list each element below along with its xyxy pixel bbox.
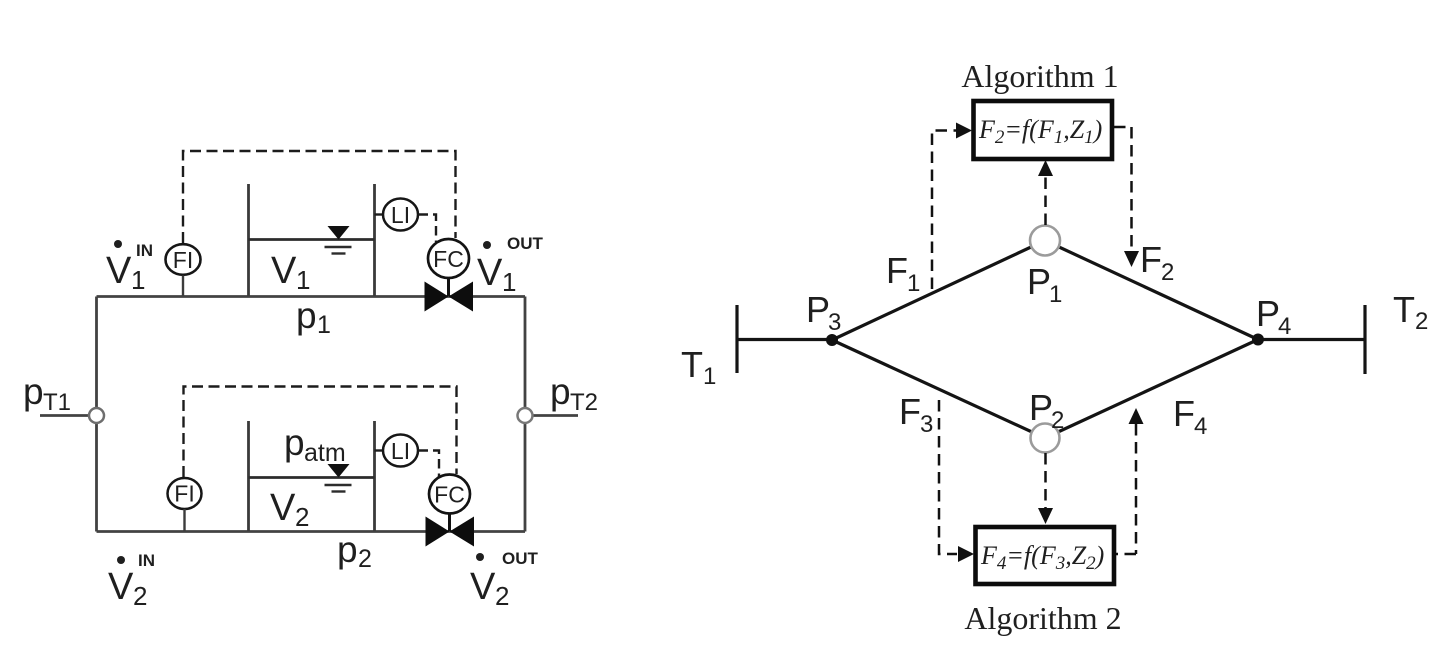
svg-text:V: V	[271, 250, 297, 292]
arrowhead onto edge F4	[1129, 408, 1144, 424]
pipe loop right	[524, 297, 527, 532]
edge P3-P1	[737, 241, 1365, 439]
svg-text:2: 2	[1051, 407, 1064, 434]
svg-text:FI: FI	[174, 481, 194, 507]
valve V1-out body	[425, 282, 449, 312]
svg-text:F: F	[899, 391, 921, 432]
box Algorithm2	[976, 527, 1115, 584]
svg-text:IN: IN	[136, 241, 153, 260]
terminal T1 bar	[735, 305, 738, 373]
edge P2-P4	[1045, 340, 1258, 439]
svg-text:2: 2	[1161, 259, 1174, 286]
svg-text:P: P	[1029, 387, 1053, 428]
svg-text:1: 1	[907, 270, 920, 297]
instrument FC2	[429, 475, 470, 514]
svg-text:LI: LI	[391, 438, 410, 464]
label V2-dot-OUT	[470, 549, 539, 611]
label p-atm	[284, 422, 346, 467]
pipe loop top	[40, 297, 578, 532]
label F3	[899, 391, 933, 438]
wire FI2 stem	[183, 509, 185, 531]
svg-text:3: 3	[920, 411, 933, 438]
tank V2 liquid surface	[249, 476, 375, 479]
svg-text:T2: T2	[570, 389, 598, 416]
tank V1 level marker line 1	[325, 246, 352, 249]
node pT2 junction circle	[518, 408, 533, 423]
svg-text:F: F	[1173, 393, 1195, 434]
svg-text:4: 4	[1194, 413, 1207, 440]
svg-text:1: 1	[296, 265, 310, 295]
svg-text:P: P	[806, 289, 830, 330]
valve V1-out stem	[447, 278, 450, 296]
edge P1-P4	[1045, 241, 1258, 340]
label F1	[886, 250, 920, 297]
svg-text:F: F	[886, 250, 908, 291]
svg-text:3: 3	[828, 309, 841, 336]
label T2	[1393, 289, 1428, 335]
valve V2-out stem	[448, 514, 451, 532]
tank V2 level marker line 2	[332, 490, 346, 492]
label V1 tank	[271, 250, 310, 295]
svg-text:F: F	[1140, 239, 1162, 280]
svg-text:P: P	[1256, 293, 1280, 334]
svg-text:T: T	[1393, 289, 1415, 330]
svg-text:T1: T1	[43, 389, 71, 416]
node P2 circle	[1031, 424, 1060, 453]
wire T1 to P3	[737, 338, 832, 341]
svg-text:FC: FC	[433, 246, 464, 272]
svg-text:atm: atm	[304, 439, 346, 467]
node pT1 junction circle	[89, 408, 104, 423]
wire dashed right bottom (edge F4 to Algorithm2)	[1114, 424, 1136, 554]
label p2	[337, 529, 372, 573]
svg-text:Algorithm 2: Algorithm 2	[964, 600, 1121, 636]
label F4	[1173, 393, 1207, 440]
tank V2 left wall	[247, 421, 250, 531]
svg-text:2: 2	[495, 581, 509, 611]
tank V1 left wall	[247, 184, 250, 296]
node P4 dot	[1252, 334, 1264, 346]
terminal T2 bar	[1363, 305, 1366, 374]
instrument FI1	[166, 244, 201, 275]
svg-text:4: 4	[1278, 313, 1291, 340]
svg-text:2: 2	[295, 502, 309, 532]
label p1	[296, 295, 331, 339]
tank V1 right wall	[373, 184, 376, 296]
arrowhead into box2 top	[1038, 508, 1053, 524]
label pT1	[23, 371, 71, 416]
wire dashed control loop top (FI1 to FC1)	[183, 151, 456, 243]
svg-text:2: 2	[358, 545, 372, 573]
svg-text:p: p	[284, 422, 305, 463]
arrowhead into box1 left	[956, 123, 972, 139]
arrowhead into box1 bottom	[1038, 160, 1053, 176]
tank V2 level marker line 1	[325, 484, 352, 487]
instrument FC1	[428, 239, 469, 278]
svg-text:V: V	[106, 250, 132, 292]
tank V1 level marker triangle	[328, 226, 350, 240]
edge P3-P2	[832, 340, 1045, 438]
label V2-dot-IN	[108, 551, 155, 611]
svg-text:V: V	[270, 487, 296, 529]
pT2 stub line	[532, 414, 578, 417]
svg-text:V: V	[477, 252, 503, 294]
label V1-dot-IN	[106, 240, 153, 295]
arrowhead onto edge F2	[1124, 251, 1139, 267]
svg-text:LI: LI	[391, 202, 410, 228]
wire dashed right top (Algorithm1 to edge F2)	[1114, 127, 1132, 251]
svg-text:1: 1	[317, 311, 331, 339]
label V2 tank	[270, 487, 309, 532]
instrument LI1	[375, 199, 419, 231]
svg-text:2: 2	[1415, 308, 1428, 335]
svg-text:1: 1	[131, 265, 145, 295]
tank V1 liquid surface	[249, 238, 375, 241]
svg-text:p: p	[337, 529, 358, 570]
label T1	[681, 344, 716, 390]
wire dashed control loop bottom (FI2 to FC2)	[184, 387, 457, 478]
svg-text:Algorithm 1: Algorithm 1	[961, 58, 1118, 94]
svg-text:OUT: OUT	[507, 234, 544, 253]
svg-text:T: T	[681, 344, 703, 385]
svg-text:FI: FI	[173, 247, 193, 273]
label P2	[1029, 387, 1064, 434]
label P1	[1027, 261, 1062, 308]
node P1 circle	[1030, 226, 1060, 256]
svg-text:IN: IN	[138, 551, 155, 570]
pipe loop left	[95, 297, 98, 532]
label pT2	[550, 371, 598, 416]
tank V1 level marker line 2	[332, 252, 346, 254]
svg-text:OUT: OUT	[502, 549, 539, 568]
svg-text:V: V	[108, 566, 134, 608]
svg-text:p: p	[296, 295, 317, 336]
valve V2-out body	[426, 517, 450, 547]
svg-text:p: p	[23, 371, 44, 412]
instrument LI2	[375, 435, 419, 467]
box Algorithm1	[974, 101, 1113, 159]
arrowhead into box2 left	[958, 546, 974, 562]
svg-text:P: P	[1027, 261, 1051, 302]
svg-text:p: p	[550, 371, 571, 412]
tank V2 right wall	[373, 421, 376, 531]
wire dashed LI1 to FC1	[419, 215, 437, 243]
wire dashed P1 to Algorithm1	[1044, 176, 1047, 225]
wire dashed LI2 to FC2	[419, 451, 440, 479]
wire dashed left bottom (edge F3 to Algorithm2)	[939, 400, 957, 554]
wire FI1 stem	[182, 276, 184, 297]
label P3	[806, 289, 841, 336]
svg-text:1: 1	[1049, 281, 1062, 308]
svg-text:2: 2	[133, 581, 147, 611]
wire dashed P2 to Algorithm2	[1044, 453, 1047, 508]
label V1-dot-OUT	[477, 234, 544, 297]
svg-text:FC: FC	[434, 482, 465, 508]
svg-text:V: V	[470, 566, 496, 608]
pipe loop bottom	[97, 530, 526, 533]
wire P4 to T2	[1258, 338, 1365, 341]
svg-text:1: 1	[703, 363, 716, 390]
svg-text:1: 1	[502, 267, 516, 297]
instrument FI2	[168, 478, 202, 509]
pT1 stub line	[40, 414, 89, 417]
label F2	[1140, 239, 1174, 286]
label P4	[1256, 293, 1291, 340]
tank V2 level marker triangle	[328, 464, 350, 478]
node P3 dot	[826, 334, 838, 346]
wire dashed left top (edge F1 to Algorithm1)	[932, 131, 956, 290]
